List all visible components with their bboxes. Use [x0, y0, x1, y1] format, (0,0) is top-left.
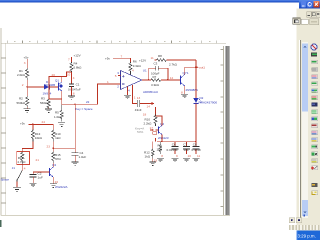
- pot arrow: [150, 129, 154, 131]
- wire rect-bottom to R3: [48, 98, 50, 100]
- resistor R8: [155, 54, 197, 66]
- LED D2: [193, 96, 217, 104]
- svg-text:1N914: 1N914: [43, 92, 52, 96]
- wire R1 to junction: [26, 80, 28, 96]
- left inner border line: [5, 43, 7, 216]
- svg-text:1.0kΩ: 1.0kΩ: [54, 115, 63, 119]
- transistor Q4: [50, 163, 68, 189]
- capacitor C5: [135, 96, 142, 112]
- window button minimize: [301, 1, 306, 7]
- icon 4: [312, 68, 318, 72]
- power +5v label (op-amp): [105, 56, 131, 62]
- svg-text:+5v: +5v: [24, 56, 29, 60]
- title bar right block: [299, 0, 320, 9]
- svg-text:R8: R8: [158, 54, 162, 58]
- ground under R3: [45, 108, 52, 113]
- wire net up to op-amp input: [98, 84, 121, 104]
- resistor R15: [52, 152, 62, 164]
- power +12V label (R8): [139, 56, 154, 62]
- icon 20: [312, 191, 318, 195]
- svg-text:+12V: +12V: [74, 53, 81, 57]
- svg-text:Space: Space: [1, 178, 10, 182]
- resistor R1: [17, 68, 29, 80]
- svg-text:11: 11: [151, 56, 154, 60]
- svg-text:21: 21: [36, 158, 40, 162]
- svg-text:AD8051AU: AD8051AU: [143, 90, 158, 94]
- svg-text:10: 10: [67, 72, 71, 76]
- svg-text:560kΩ: 560kΩ: [17, 101, 27, 105]
- icon 8: [312, 96, 318, 100]
- pot label gray: [135, 126, 145, 134]
- svg-text:2.0kΩ: 2.0kΩ: [17, 73, 26, 77]
- svg-text:1: 1: [134, 95, 136, 99]
- svg-text:Q1: Q1: [55, 78, 59, 82]
- wire loop around Q1: [49, 77, 62, 100]
- wire Q1 loop to lower net: [61, 99, 63, 104]
- title bar strip top: [0, 0, 320, 3]
- svg-text:J1: J1: [12, 166, 16, 170]
- capacitor C6: [167, 142, 179, 162]
- svg-text:6.8kΩ: 6.8kΩ: [74, 66, 83, 70]
- resistor R5: [54, 104, 63, 121]
- icon 5: [312, 75, 318, 79]
- svg-text:2.2kΩ: 2.2kΩ: [144, 122, 153, 126]
- op-amp U1: [115, 69, 158, 94]
- top ruler ticks: [8, 41, 217, 44]
- svg-text:13: 13: [137, 96, 141, 100]
- svg-text:1.0uF: 1.0uF: [79, 155, 87, 159]
- icon 15: [312, 145, 318, 149]
- scrollbar strip upper thumb: [302, 42, 308, 218]
- toolbar icon column: [311, 44, 318, 195]
- svg-text:1uF: 1uF: [38, 175, 43, 179]
- svg-text:560kΩ: 560kΩ: [40, 101, 50, 105]
- wire drop to R16: [52, 125, 54, 130]
- icon 9: [312, 103, 318, 107]
- svg-text:3:29 p.m.: 3:29 p.m.: [298, 233, 316, 238]
- svg-text:+5v: +5v: [105, 56, 110, 60]
- resistor R17: [144, 115, 158, 127]
- icon 10: [312, 110, 318, 114]
- ground under Q4: [50, 184, 57, 188]
- svg-text:+5v: +5v: [20, 121, 25, 125]
- toolbar small icon + field row: [293, 18, 300, 24]
- ground under C2: [30, 183, 37, 187]
- transistor Q1: [44, 78, 63, 91]
- net chain: flag to R17: [155, 107, 157, 115]
- icon 12: [312, 124, 318, 128]
- right toolbar panel: [297, 9, 320, 232]
- resistor R12 (chain to ground): [144, 138, 157, 166]
- grip stripes: [289, 225, 320, 230]
- left border ticks: [1, 58, 6, 203]
- wire lower horizontal net: [62, 103, 98, 105]
- resistor R3: [40, 97, 50, 108]
- wire out1 down to LED: [195, 67, 197, 98]
- power +12V label (R4 top): [72, 53, 81, 62]
- svg-text:QY1: QY1: [183, 71, 189, 75]
- svg-text:18: 18: [143, 112, 147, 116]
- window button maximize: [307, 1, 313, 8]
- svg-text:7: 7: [121, 54, 123, 58]
- svg-text:C6: C6: [172, 143, 176, 147]
- resistor R7: [142, 75, 181, 87]
- svg-text:1kΩ: 1kΩ: [55, 136, 61, 140]
- top border line: [1, 42, 226, 44]
- ground under C1: [68, 96, 75, 100]
- wire Q1 collector to R4 node: [62, 72, 72, 77]
- icon 19: [312, 183, 318, 187]
- op-amp ground pin: [124, 87, 131, 99]
- wire R8 corner to collector: [185, 60, 196, 67]
- icon 7: [312, 89, 318, 93]
- mdi child buttons: [307, 12, 311, 18]
- resistor R16: [52, 130, 62, 142]
- svg-text:14: 14: [147, 105, 151, 109]
- svg-text:9: 9: [176, 154, 178, 158]
- icon 2: [311, 53, 317, 57]
- Q3 collector loop: [156, 116, 163, 126]
- power +5v label (bottom-left): [20, 121, 53, 125]
- resistor R13: [31, 130, 42, 142]
- pot body: [153, 132, 157, 135]
- power +5V label (left): [24, 56, 29, 69]
- taskbar clock: [296, 230, 320, 240]
- wire drop to R13: [32, 125, 34, 130]
- svg-text:3.3kΩ: 3.3kΩ: [151, 83, 160, 87]
- right inner border line: [223, 46, 225, 215]
- svg-text:C3: C3: [154, 62, 158, 66]
- bottom border line: [1, 215, 230, 217]
- svg-text:10: 10: [188, 154, 192, 158]
- wire junction to C4: [53, 147, 75, 149]
- wire R4 node down to C1: [71, 72, 73, 84]
- svg-text:2.7kΩ: 2.7kΩ: [169, 62, 178, 66]
- svg-text:47Ω: 47Ω: [55, 157, 61, 161]
- net flag 14: [147, 102, 155, 109]
- wire R13 to R14: [22, 142, 33, 152]
- transistor Q3: [156, 122, 169, 140]
- svg-text:50%: 50%: [137, 130, 143, 134]
- wire R14 to switch: [21, 165, 23, 171]
- wire R16 to junction: [52, 142, 54, 152]
- svg-text:8: 8: [73, 91, 75, 95]
- svg-text:out1: out1: [199, 66, 205, 70]
- small pager buttons bottom of toolbar: [304, 215, 306, 217]
- svg-text:2N4123: 2N4123: [158, 136, 169, 140]
- right shadow bar: [226, 46, 230, 215]
- svg-text:3: 3: [24, 61, 26, 65]
- icon 16: [312, 152, 318, 156]
- svg-text:Q4: Q4: [52, 163, 56, 167]
- svg-text:23: 23: [47, 145, 51, 149]
- svg-text:R7: R7: [153, 75, 157, 79]
- capacitor C3: [151, 62, 160, 76]
- svg-text:43nF: 43nF: [135, 108, 142, 112]
- wire C2 to ground: [32, 177, 34, 183]
- icon 13: [312, 131, 318, 135]
- svg-text:11: 11: [197, 154, 200, 158]
- junction dots feedback: [148, 79, 149, 80]
- svg-text:0.47uF: 0.47uF: [192, 148, 202, 152]
- svg-text:0.015uF: 0.015uF: [167, 148, 178, 152]
- ground under C4: [72, 155, 79, 165]
- QY1 collector wire: [184, 67, 186, 74]
- svg-text:1uF: 1uF: [184, 148, 189, 152]
- svg-text:U1: U1: [143, 69, 147, 73]
- svg-text:4: 4: [73, 76, 75, 80]
- svg-text:1: 1: [107, 80, 109, 84]
- svg-text:4: 4: [132, 69, 134, 73]
- svg-text:2: 2: [22, 83, 24, 87]
- Q3 emitter to bus: [161, 135, 163, 142]
- right border ticks: [221, 50, 224, 207]
- svg-text:C1: C1: [76, 83, 80, 87]
- wire LED to bus: [195, 104, 197, 142]
- svg-text:17: 17: [150, 126, 154, 130]
- resistor R9: [157, 142, 164, 162]
- svg-text:C8: C8: [193, 143, 197, 147]
- ground under R5: [58, 123, 65, 127]
- svg-text:Key = Space: Key = Space: [76, 107, 93, 111]
- svg-text:10kΩ: 10kΩ: [35, 136, 43, 140]
- capacitor C1: [68, 83, 81, 92]
- resistor R6: [129, 60, 142, 75]
- zone number dots above ruler: [14, 41, 210, 42]
- svg-text:4: 4: [24, 167, 26, 171]
- svg-text:D2: D2: [200, 96, 204, 100]
- wire C5 to flag: [140, 103, 152, 105]
- selection box around R14: [17, 152, 30, 165]
- svg-text:+12V: +12V: [139, 59, 146, 63]
- ground under R2: [24, 107, 31, 112]
- capacitor C2: [30, 172, 43, 180]
- Q4 emitter wire: [52, 177, 54, 183]
- svg-text:7: 7: [68, 58, 70, 62]
- svg-text:8: 8: [161, 154, 163, 158]
- feedback loop wires: [149, 68, 168, 80]
- toolbar left separator lines: [300, 40, 301, 218]
- svg-text:12: 12: [170, 76, 174, 80]
- QY1 emitter wire + ground: [181, 86, 188, 98]
- switch J1: [1, 166, 23, 182]
- resistor R4: [70, 61, 82, 72]
- wire C1 to ground: [71, 86, 73, 95]
- capacitor C8: [192, 142, 202, 162]
- icon 17: [312, 159, 318, 163]
- svg-text:16: 16: [55, 180, 59, 184]
- icon 18: [312, 166, 318, 170]
- svg-text:BC546B: BC546B: [44, 83, 55, 87]
- capacitor C4: [72, 151, 87, 159]
- Q4 collector wire: [52, 163, 54, 167]
- wire to diode: [27, 86, 44, 88]
- sheet frame: [1, 28, 230, 216]
- wire switch to ground: [16, 181, 18, 187]
- icon 6: [312, 82, 318, 86]
- icon 11: [312, 117, 318, 121]
- capacitor C7: [183, 142, 191, 162]
- ground under switch: [13, 187, 21, 191]
- resistor R2: [17, 96, 29, 107]
- svg-text:2N2222A: 2N2222A: [55, 185, 68, 189]
- resistor R14: [17, 152, 26, 165]
- svg-text:1kΩ: 1kΩ: [157, 148, 163, 152]
- output bus wire: [157, 141, 196, 143]
- junction dot: [26, 86, 27, 87]
- left outer border line: [0, 28, 2, 216]
- svg-text:24: 24: [42, 120, 46, 124]
- out1 flag: [196, 66, 206, 70]
- diode D1: [43, 80, 52, 96]
- svg-text:HRA2437900: HRA2437900: [199, 101, 218, 105]
- transistor QY1: [181, 71, 198, 92]
- svg-text:22: 22: [86, 100, 90, 104]
- svg-text:3.3kΩ: 3.3kΩ: [133, 64, 142, 68]
- svg-text:C7: C7: [183, 143, 187, 147]
- wire vertical to C4: [74, 104, 76, 152]
- status icon bottom-left edge: [0, 220, 2, 227]
- icon 14: [312, 138, 318, 142]
- svg-text:1kΩ: 1kΩ: [145, 154, 151, 158]
- wire diode to Q1 base: [49, 86, 58, 88]
- window button close: [313, 1, 319, 8]
- op-amp pin stub down: [128, 85, 137, 104]
- svg-text:4.7kΩ: 4.7kΩ: [17, 160, 26, 164]
- icon 3: [312, 60, 318, 64]
- icon 1: [311, 44, 317, 50]
- Q4 base wire: [33, 171, 50, 173]
